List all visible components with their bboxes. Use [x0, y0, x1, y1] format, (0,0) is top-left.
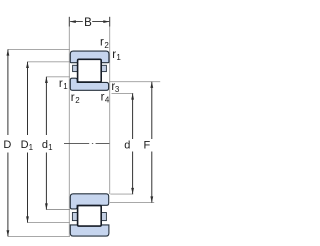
arrow d up	[131, 93, 134, 99]
roller top	[78, 59, 102, 82]
dimension B line	[70, 21, 109, 23]
arrow d down	[131, 188, 134, 194]
svg-text:1: 1	[29, 143, 34, 152]
svg-text:r: r	[71, 92, 75, 104]
B extension tick right	[109, 17, 111, 27]
svg-text:2: 2	[75, 96, 80, 105]
extension line F bottom	[110, 202, 154, 204]
extension line D1 bottom	[28, 222, 71, 224]
arrow F up	[150, 82, 153, 88]
arrow F down	[150, 196, 153, 202]
svg-text:D: D	[3, 139, 11, 151]
arrow D1 down	[26, 216, 29, 222]
extension line d top	[112, 92, 134, 94]
bottom bearing section	[70, 194, 109, 236]
dimension d line	[132, 93, 134, 194]
extension line D top	[8, 48, 70, 50]
dimension D1 line	[27, 62, 29, 223]
inner ring top	[70, 78, 108, 90]
arrow D up	[7, 49, 10, 55]
svg-text:1: 1	[116, 53, 121, 62]
inner ring bottom	[70, 194, 108, 209]
svg-text:d: d	[42, 139, 48, 151]
dimension D line	[7, 49, 9, 236]
cage bar left top	[73, 65, 78, 71]
svg-text:3: 3	[115, 85, 120, 94]
svg-text:1: 1	[48, 143, 53, 152]
svg-text:r: r	[100, 37, 104, 49]
cage bar right top	[101, 65, 106, 71]
outer ring bottom	[70, 225, 109, 236]
extension line D1 top	[28, 61, 71, 63]
extension line F top	[109, 81, 160, 83]
extension line D bottom	[8, 235, 70, 237]
roller bottom	[78, 206, 102, 227]
svg-text:d: d	[124, 139, 130, 151]
projection line left	[68, 17, 70, 236]
cage bar right bottom	[101, 213, 106, 221]
top bearing section	[70, 51, 109, 90]
dimension F line	[151, 82, 153, 203]
projection line right	[109, 17, 111, 194]
arrow d1 down	[45, 203, 48, 209]
extension line d1 top	[46, 76, 70, 78]
svg-text:D: D	[21, 139, 29, 151]
dimension d1 line	[45, 77, 47, 210]
cage bar left bottom	[72, 213, 77, 221]
svg-text:r: r	[59, 78, 63, 90]
arrow D1 up	[26, 62, 29, 68]
arrow D down	[7, 230, 10, 236]
svg-text:F: F	[144, 139, 151, 151]
svg-text:4: 4	[105, 95, 110, 104]
extension line d bottom	[110, 193, 133, 195]
svg-text:B: B	[84, 17, 92, 29]
arrow B left	[70, 20, 76, 23]
arrow B right	[103, 20, 109, 23]
centerline axis dash-dot	[64, 143, 109, 145]
svg-text:1: 1	[63, 82, 68, 91]
extension line d1 bottom	[46, 209, 70, 211]
svg-text:2: 2	[104, 41, 109, 50]
outer ring top	[70, 51, 109, 63]
arrow d1 up	[45, 77, 48, 83]
B extension tick left	[68, 17, 70, 27]
